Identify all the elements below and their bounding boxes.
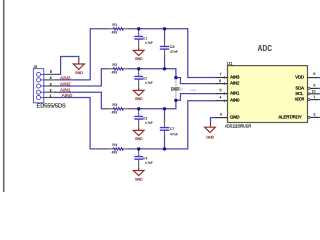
- connector J5 pin 2 stub: [44, 91, 56, 93]
- svg-text:SCL: SCL: [295, 91, 304, 96]
- svg-text:6: 6: [219, 79, 221, 83]
- svg-text:1: 1: [50, 94, 52, 98]
- wire net AIN1 connector pin2 to row3: [56, 92, 108, 109]
- IC pin 9 SDA (right): [295, 84, 316, 91]
- svg-text:499: 499: [112, 29, 118, 34]
- resistor R1: [108, 22, 129, 34]
- IC pin 2 ALERT/RDY (right): [278, 113, 316, 120]
- svg-text:5: 5: [50, 70, 52, 74]
- wire IC pin3 to ground symbol: [211, 118, 217, 123]
- svg-text:C6: C6: [179, 87, 183, 91]
- svg-text:GND: GND: [135, 97, 143, 101]
- svg-text:AIN1: AIN1: [60, 88, 71, 93]
- connector J5 pin 3 stub: [44, 85, 56, 87]
- ground below C3: [133, 129, 144, 142]
- wire C5 upper lead to row1: [164, 29, 166, 40]
- IC pin 7 AIN3 (left): [216, 72, 240, 79]
- sheet border line: [3, 0, 5, 192]
- IC pin 6 AIN2 (left): [216, 79, 240, 86]
- svg-text:AIN3: AIN3: [230, 74, 240, 79]
- capacitor C4 4.7nF: [134, 150, 153, 169]
- node row3 C7 tap: [163, 107, 166, 110]
- ground below C1: [133, 49, 144, 62]
- capacitor C5 47nF: [160, 40, 179, 55]
- svg-text:AIN3: AIN3: [60, 75, 71, 80]
- svg-text:3: 3: [50, 82, 52, 86]
- svg-text:GND: GND: [75, 71, 83, 75]
- wire row3 from R3 to C6 bottom: [129, 100, 176, 109]
- wire net AIN3 connector pin4 to row1: [56, 29, 108, 80]
- node row3 C3 tap: [137, 107, 140, 110]
- svg-text:AIN0: AIN0: [230, 98, 240, 103]
- resistor R2: [108, 62, 129, 74]
- svg-text:GND: GND: [135, 137, 143, 141]
- svg-text:4.7nF: 4.7nF: [145, 40, 153, 45]
- svg-text:9: 9: [313, 84, 315, 88]
- svg-text:4: 4: [219, 96, 221, 100]
- svg-text:8: 8: [313, 72, 315, 76]
- svg-text:1: 1: [313, 95, 315, 99]
- svg-text:R3: R3: [112, 102, 118, 107]
- svg-text:5: 5: [220, 89, 222, 93]
- ground at IC pin3: [205, 123, 216, 140]
- svg-text:499: 499: [112, 150, 118, 155]
- capacitor C2 4.7nF: [134, 69, 153, 88]
- wire row1 from R1 to IC pin7: [129, 29, 216, 78]
- capacitor C6 47nF (DNP, not populated): [171, 78, 197, 101]
- wire C7 lower lead to row4: [164, 136, 166, 148]
- svg-text:GND: GND: [230, 114, 239, 119]
- connector J5 body: [33, 69, 43, 103]
- svg-text:499: 499: [112, 109, 118, 114]
- connector J5 pin 4 stub: [44, 79, 56, 81]
- svg-text:2: 2: [314, 113, 316, 117]
- node C6 bottom tap: [174, 99, 177, 102]
- ground at connector pin5: [73, 59, 84, 75]
- ground below C4: [133, 169, 144, 182]
- node row1 C5 tap: [163, 27, 166, 30]
- svg-text:GND: GND: [135, 57, 143, 61]
- resistor R3: [108, 102, 129, 114]
- wire stub VDD pin8: [317, 77, 320, 79]
- IC pin 1 ADDR (right): [295, 95, 317, 102]
- IC pin 4 AIN0 (left): [216, 96, 240, 103]
- IC pin 5 AIN1 (left): [216, 89, 240, 96]
- svg-text:DNP: DNP: [171, 87, 179, 92]
- connector J5 pin 5 stub: [44, 73, 56, 75]
- node row1 C1 tap: [137, 27, 140, 30]
- svg-text:R2: R2: [112, 62, 118, 67]
- connector J5 pin 1 stub: [44, 97, 56, 99]
- svg-text:2: 2: [50, 89, 52, 93]
- svg-text:ADDR: ADDR: [295, 96, 304, 101]
- svg-text:VDD: VDD: [295, 75, 304, 80]
- wire stub SCL pin10: [317, 93, 320, 95]
- svg-text:4.7nF: 4.7nF: [145, 120, 153, 125]
- svg-text:R1: R1: [112, 22, 118, 27]
- resistor R4: [108, 142, 129, 154]
- svg-text:499: 499: [112, 69, 118, 74]
- IC pin 10 SCL (right): [295, 89, 317, 96]
- IC pin 8 VDD (right): [295, 72, 317, 80]
- svg-text:AIN2: AIN2: [230, 80, 240, 85]
- wire C5 lower lead to row2: [164, 55, 166, 68]
- capacitor C7 47nF: [160, 121, 179, 136]
- wire C6 bottom tap to IC pin5: [176, 94, 216, 101]
- wire stub ALERT/RDY pin2: [317, 116, 320, 118]
- svg-text:U1: U1: [227, 61, 233, 66]
- svg-text:3: 3: [220, 113, 222, 117]
- svg-text:ADS1115IRUGR: ADS1115IRUGR: [225, 123, 251, 128]
- wire C7 upper lead to row3: [164, 109, 166, 121]
- svg-text:AIN1: AIN1: [230, 90, 240, 95]
- IC U1 ADS1115 body: [228, 66, 308, 123]
- svg-text:47nF: 47nF: [170, 49, 178, 54]
- node row4 C4 tap: [137, 147, 140, 150]
- wire net AIN0 connector pin1 to row4: [56, 98, 108, 149]
- svg-text:4.7nF: 4.7nF: [145, 80, 153, 85]
- wire stub ADDR pin1: [317, 99, 320, 101]
- svg-text:47nF: 47nF: [190, 89, 197, 93]
- wire C6 top tap to IC pin6: [176, 78, 216, 84]
- capacitor C1 4.7nF: [134, 29, 153, 48]
- svg-text:ED555/5DS: ED555/5DS: [37, 103, 67, 109]
- svg-text:7: 7: [220, 72, 222, 76]
- wire net AIN2 connector pin3 to row2: [56, 69, 108, 86]
- wire stub SDA pin9: [317, 87, 320, 89]
- IC pin 3 GND (left): [216, 113, 239, 120]
- wire row4 from R4 to IC pin4: [129, 101, 216, 149]
- capacitor C3 4.7nF: [134, 109, 153, 128]
- svg-text:J5: J5: [34, 65, 38, 69]
- node row2 C5 tap: [163, 67, 166, 70]
- svg-text:47nF: 47nF: [170, 131, 178, 136]
- svg-text:AIN0: AIN0: [62, 93, 73, 98]
- svg-text:AIN2: AIN2: [60, 81, 71, 86]
- svg-text:ADC: ADC: [258, 43, 273, 53]
- svg-text:GND: GND: [135, 177, 143, 181]
- ground below C2: [133, 89, 144, 102]
- svg-text:ALERT/RDY: ALERT/RDY: [278, 115, 301, 120]
- svg-text:4: 4: [50, 76, 52, 80]
- node row2 C2 tap: [137, 67, 140, 70]
- svg-text:R4: R4: [112, 142, 118, 147]
- wire row2 from R2 to C6 top: [129, 69, 176, 78]
- svg-text:GND: GND: [206, 135, 214, 139]
- node C6 top tap: [174, 76, 177, 79]
- node row4 C7 tap: [163, 147, 166, 150]
- svg-text:4.7nF: 4.7nF: [145, 160, 153, 165]
- svg-text:10: 10: [312, 89, 316, 93]
- wire connector pin5 to ground symbol: [56, 57, 79, 75]
